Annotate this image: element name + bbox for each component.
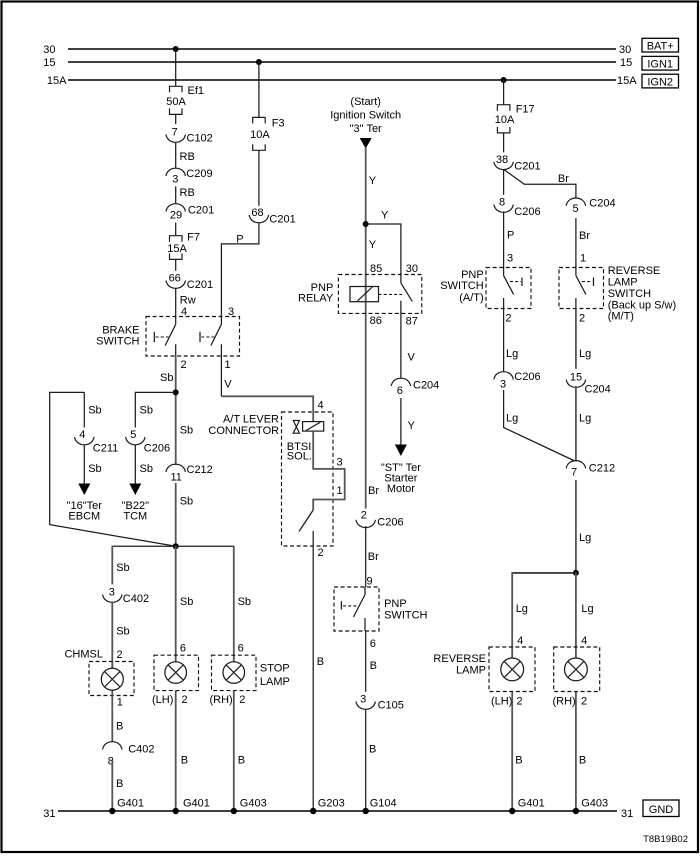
svg-text:C204: C204 [413, 379, 439, 391]
svg-text:V: V [224, 378, 232, 390]
wire B reverse RH to ground [576, 692, 586, 812]
svg-text:85: 85 [370, 263, 382, 275]
svg-text:(LH): (LH) [491, 695, 512, 707]
svg-text:1: 1 [225, 359, 231, 371]
brake switch box [96, 317, 239, 357]
svg-text:C209: C209 [186, 168, 212, 180]
connector C212 pin 7 [566, 461, 615, 479]
svg-text:1: 1 [337, 485, 343, 497]
svg-text:29: 29 [170, 210, 182, 222]
svg-text:3: 3 [507, 253, 513, 265]
wire bus15A to fuse F17 [503, 80, 505, 105]
svg-text:C105: C105 [378, 700, 404, 712]
wire Rw to brake switch pin 4 [176, 288, 196, 318]
svg-text:LAMP: LAMP [260, 676, 290, 688]
svg-text:Br: Br [368, 485, 379, 497]
svg-text:RELAY: RELAY [298, 293, 334, 305]
IGN2 box [642, 74, 679, 88]
svg-text:Sb: Sb [140, 405, 153, 417]
wire Br branch to C204 [504, 169, 576, 198]
svg-text:G401: G401 [117, 798, 144, 810]
svg-text:C402: C402 [128, 743, 154, 755]
wire RB [176, 142, 195, 169]
wire Lg pin 2 to C206 [504, 309, 519, 373]
svg-text:2: 2 [579, 313, 585, 325]
arrow to EBCM [78, 484, 90, 496]
wire Sb to stop lamp LH [176, 546, 194, 667]
svg-text:15: 15 [620, 57, 632, 69]
svg-text:2: 2 [181, 359, 187, 371]
ground G401 stop LH [173, 798, 210, 815]
reverse lamp LH box [489, 647, 535, 692]
svg-text:SOL.: SOL. [287, 451, 312, 463]
wire B CHMSL to ground [112, 760, 123, 811]
svg-text:(Back up S/w): (Back up S/w) [608, 299, 676, 311]
connector C209 pin 3 [166, 168, 213, 185]
svg-text:Lg: Lg [516, 603, 528, 615]
wire Lg diagonal to C212 [504, 390, 575, 461]
svg-text:5: 5 [130, 429, 136, 441]
svg-text:3: 3 [228, 306, 234, 318]
node Lg junction [573, 570, 579, 576]
svg-text:7: 7 [571, 467, 577, 479]
connector C206 pin 2 [356, 509, 404, 528]
bus 15 IGN1 [43, 57, 632, 69]
bus 15A IGN2 [47, 75, 637, 87]
svg-text:15: 15 [570, 372, 582, 384]
svg-text:6: 6 [370, 638, 376, 650]
bus 31 ground [43, 808, 633, 820]
arrow from ignition switch [360, 138, 372, 149]
svg-text:2: 2 [318, 547, 324, 559]
svg-text:B: B [515, 754, 522, 766]
svg-text:Br: Br [579, 230, 590, 242]
svg-text:Sb: Sb [116, 626, 129, 638]
svg-text:Sb: Sb [180, 596, 193, 608]
svg-text:3: 3 [500, 379, 506, 391]
svg-text:G104: G104 [370, 798, 397, 810]
PNP switch contact [341, 587, 365, 631]
reverse lamp switch label [608, 265, 676, 323]
CHMSL lamp box [89, 662, 134, 696]
svg-text:5: 5 [572, 203, 578, 215]
wire Lg branch to reverse lamp LH [512, 572, 576, 667]
svg-text:7: 7 [172, 127, 178, 139]
BTSI solenoid valve symbol [293, 421, 299, 434]
REVERSE LAMP label [433, 653, 486, 677]
label (RH) 2 reverse [553, 695, 588, 707]
BTSI solenoid coil [303, 422, 324, 432]
svg-text:TCM: TCM [123, 510, 147, 522]
svg-text:6: 6 [397, 385, 403, 397]
connector C201 pin 38 [494, 154, 541, 172]
wire Sb TCM branch [135, 392, 175, 427]
wire Sb EBCM drop [84, 392, 101, 427]
svg-text:Rw: Rw [180, 294, 196, 306]
reverse lamp RH [565, 658, 588, 681]
connector C206 pin 5 [126, 429, 170, 454]
svg-text:2: 2 [182, 694, 188, 706]
wire V to A/T lever connector pin 4 [221, 396, 323, 421]
ground G203 [310, 798, 345, 815]
wire B to ground G104 [366, 709, 377, 811]
svg-text:Sb: Sb [88, 463, 101, 475]
svg-text:C204: C204 [589, 198, 615, 210]
svg-text:Y: Y [369, 175, 377, 187]
IGN1 box [642, 56, 679, 70]
A/T lever connector label [208, 414, 279, 437]
connector C105 pin 3 [356, 694, 404, 712]
svg-text:2: 2 [581, 695, 587, 707]
GND box [643, 800, 679, 817]
relay coil [350, 287, 379, 302]
fuse Ef1 50A [166, 85, 204, 124]
connector C204 pin 6 [391, 378, 439, 397]
svg-text:Lg: Lg [506, 413, 518, 425]
svg-text:15A: 15A [47, 75, 67, 87]
svg-text:(RH): (RH) [210, 694, 233, 706]
svg-text:(Start): (Start) [350, 96, 381, 108]
wire Y ignition to relay coil [366, 147, 377, 509]
svg-text:C201: C201 [514, 160, 540, 172]
stop lamp RH box [212, 655, 257, 690]
svg-text:(LH): (LH) [152, 694, 173, 706]
svg-text:(M/T): (M/T) [608, 311, 634, 323]
svg-text:15A: 15A [617, 75, 637, 87]
svg-text:1: 1 [117, 697, 123, 709]
svg-text:CHMSL: CHMSL [64, 648, 103, 660]
svg-text:LAMP: LAMP [608, 277, 638, 289]
connector C102 pin 7 [166, 127, 213, 145]
svg-text:G401: G401 [518, 798, 545, 810]
svg-text:REVERSE: REVERSE [608, 265, 661, 277]
connector C206 pin 3 right [494, 371, 541, 390]
svg-text:RB: RB [180, 187, 195, 199]
wire Lg to reverse lamp RH [576, 573, 594, 667]
svg-text:STOP: STOP [260, 663, 290, 675]
svg-text:4: 4 [581, 635, 587, 647]
svg-text:Br: Br [368, 551, 379, 563]
svg-text:4: 4 [79, 429, 85, 441]
svg-text:68: 68 [251, 207, 263, 219]
node Sb junction 2 [173, 543, 179, 549]
svg-text:30: 30 [406, 263, 418, 275]
label (LH) 2 [152, 694, 188, 706]
wire B reverse LH to ground [512, 692, 522, 812]
wire Y branch to relay pin 30 [366, 210, 401, 284]
svg-text:C201: C201 [187, 279, 213, 291]
label (RH) 2 [210, 694, 246, 706]
svg-text:15: 15 [43, 57, 55, 69]
BAT+ box [642, 38, 679, 52]
svg-text:3: 3 [172, 173, 178, 185]
svg-text:C402: C402 [123, 593, 149, 605]
svg-text:66: 66 [169, 273, 181, 285]
svg-text:"3" Ter: "3" Ter [350, 123, 382, 135]
svg-text:3: 3 [109, 587, 115, 599]
svg-text:C206: C206 [514, 371, 540, 383]
svg-text:31: 31 [621, 808, 633, 820]
svg-text:LAMP: LAMP [456, 665, 486, 677]
connector C201 pin 66 [166, 273, 213, 291]
svg-text:C206: C206 [514, 206, 540, 218]
A/T lever switch blade [299, 510, 313, 532]
ground G403 stop RH [231, 798, 267, 815]
svg-text:G403: G403 [581, 798, 608, 810]
svg-text:B: B [579, 754, 586, 766]
connector C402 pin 8 [103, 742, 155, 768]
svg-text:2: 2 [517, 695, 523, 707]
svg-text:C206: C206 [144, 442, 170, 454]
arrow to TCM [129, 484, 141, 496]
svg-text:(RH): (RH) [553, 695, 576, 707]
svg-text:P: P [507, 229, 514, 241]
svg-text:B: B [181, 754, 188, 766]
wire B stop RH to ground [234, 691, 245, 811]
svg-text:Sb: Sb [160, 372, 173, 384]
arrow to starter motor [395, 445, 407, 457]
svg-text:10A: 10A [495, 114, 515, 126]
fuse F17 10A [495, 104, 535, 153]
connector C201 pin 29 [166, 204, 214, 222]
wire Y to starter motor [401, 398, 416, 445]
svg-text:(A/T): (A/T) [459, 292, 483, 304]
svg-text:IGN2: IGN2 [647, 76, 673, 88]
wire pin 6 B to C105 [366, 631, 377, 692]
node "ST" Ter starter motor [381, 462, 421, 495]
svg-text:31: 31 [43, 808, 55, 820]
wire 38 down to C206 [503, 169, 505, 195]
svg-text:Ef1: Ef1 [188, 85, 205, 97]
wire Sb to CHMSL lamp [112, 602, 129, 669]
svg-text:B: B [369, 743, 376, 755]
wire B stop LH to ground [176, 691, 188, 811]
junction on bus 30 [173, 46, 179, 52]
svg-text:SWITCH: SWITCH [96, 336, 139, 348]
wire 5 to switch [575, 218, 577, 268]
junction on bus 15A [501, 77, 507, 83]
brake switch contact pins 4-2 [154, 317, 175, 357]
wire bus15 to fuse F3 [258, 62, 260, 117]
svg-text:1: 1 [580, 253, 586, 265]
svg-text:F3: F3 [272, 118, 285, 130]
fuse F3 10A [250, 117, 284, 205]
PNP switch AT label [440, 269, 483, 304]
svg-text:BAT+: BAT+ [647, 40, 674, 52]
svg-text:Sb: Sb [140, 463, 153, 475]
wire V below brake switch [221, 356, 232, 396]
svg-text:4: 4 [517, 635, 523, 647]
svg-text:SWITCH: SWITCH [608, 288, 651, 300]
connector C204 pin 5 [566, 198, 615, 215]
svg-text:B: B [238, 754, 245, 766]
svg-text:15A: 15A [167, 243, 187, 255]
node ignition switch feed [330, 96, 401, 135]
PNP relay label [298, 282, 334, 305]
wire Sb to EBCM arrow [84, 445, 101, 485]
wire P to brake switch pin 3 [221, 223, 259, 319]
node "16"Ter EBCM [67, 500, 103, 522]
relay link dashed [379, 293, 403, 295]
svg-text:2: 2 [117, 649, 123, 661]
wire Sb branch to stop lamp RH [176, 546, 251, 667]
stop lamp RH [223, 662, 245, 684]
wire Sb C212 to junction2 [176, 483, 193, 546]
svg-text:8: 8 [499, 197, 505, 209]
svg-text:REVERSE: REVERSE [433, 653, 486, 665]
ground G403 reverse RH [573, 798, 608, 815]
svg-text:Sb: Sb [88, 405, 101, 417]
CHMSL lamp [101, 662, 123, 696]
node Y junction [363, 221, 369, 227]
wire V relay 87 to C204 [401, 313, 416, 378]
PNP switch box lower [334, 587, 379, 631]
label (LH) 2 reverse [491, 695, 523, 707]
svg-text:Sb: Sb [116, 562, 129, 574]
relay pin labels 85 30 [370, 263, 418, 275]
svg-text:Sb: Sb [180, 424, 193, 436]
svg-text:11: 11 [170, 471, 181, 483]
wire Sb brake to junction [160, 356, 176, 465]
reverse lamp LH [501, 658, 524, 681]
svg-text:GND: GND [649, 804, 674, 816]
connector C206 pin 8 [494, 197, 541, 218]
svg-text:86: 86 [370, 315, 382, 327]
svg-text:T8B19B02: T8B19B02 [643, 834, 688, 845]
reverse lamp RH box [554, 647, 600, 692]
svg-text:2: 2 [505, 313, 511, 325]
svg-text:C201: C201 [269, 213, 295, 225]
PNP switch AT contact [504, 268, 522, 309]
svg-text:G401: G401 [183, 798, 210, 810]
stop lamp LH [165, 662, 187, 684]
node Sb junction 1 [173, 389, 179, 395]
svg-text:Y: Y [381, 210, 389, 222]
relay pin labels 86 87 [370, 315, 418, 327]
svg-text:RB: RB [180, 151, 195, 163]
svg-text:C212: C212 [589, 462, 615, 474]
fuse F7 15A [167, 231, 200, 270]
connector C204 pin 15 [566, 372, 611, 396]
PNP switch label [384, 598, 427, 622]
wire P to PNP switch AT pin 3 [504, 212, 515, 268]
svg-text:G203: G203 [318, 798, 345, 810]
svg-text:Y: Y [369, 239, 377, 251]
wire C201 to F7 [175, 223, 177, 236]
svg-text:B: B [116, 778, 123, 790]
wire RB 2 [176, 186, 195, 204]
PNP relay box [338, 275, 421, 314]
svg-text:C102: C102 [187, 133, 213, 145]
svg-text:B: B [370, 660, 377, 672]
svg-text:Motor: Motor [387, 483, 415, 495]
svg-text:F7: F7 [187, 231, 200, 243]
svg-text:B: B [116, 720, 123, 732]
svg-text:C212: C212 [187, 464, 213, 476]
svg-text:EBCM: EBCM [68, 510, 100, 522]
wire Lg pin 2 to C204 [576, 309, 591, 369]
svg-text:C204: C204 [585, 384, 611, 396]
svg-text:4: 4 [318, 400, 324, 412]
svg-text:6: 6 [238, 642, 244, 654]
wire Br to reverse lamp switch pin 1 [579, 230, 590, 265]
svg-text:V: V [408, 352, 416, 364]
svg-text:P: P [236, 233, 243, 245]
connector C201 pin 68 [249, 207, 295, 225]
svg-text:2: 2 [361, 509, 367, 521]
ground G104 [363, 798, 397, 815]
svg-text:Sb: Sb [180, 495, 193, 507]
svg-text:3: 3 [337, 457, 343, 469]
svg-text:Lg: Lg [579, 532, 591, 544]
wire Lg to reverse lamp junction [576, 480, 591, 573]
svg-text:3: 3 [360, 694, 366, 706]
svg-text:Y: Y [408, 420, 416, 432]
svg-text:30: 30 [619, 44, 631, 56]
reverse lamp switch box [559, 268, 604, 309]
connector C212 pin 11 [166, 464, 213, 484]
relay armature contact [401, 283, 412, 313]
STOP LAMP label [260, 663, 290, 688]
svg-text:SWITCH: SWITCH [440, 280, 483, 292]
svg-text:Br: Br [558, 173, 569, 185]
svg-text:B: B [317, 656, 324, 668]
wire Sb to TCM arrow [135, 445, 153, 485]
svg-text:2: 2 [239, 694, 245, 706]
wire BTSI jog pins 3 1 [313, 431, 345, 510]
wire pin 2 B to ground G203 [313, 531, 324, 811]
svg-text:38: 38 [496, 154, 508, 166]
svg-text:87: 87 [406, 316, 418, 328]
svg-text:IGN1: IGN1 [647, 59, 673, 71]
A/T lever connector box [282, 412, 334, 546]
wire Lg to C212 [576, 386, 591, 461]
ground G401 reverse LH [509, 798, 545, 815]
ground G401 CHMSL [109, 798, 144, 815]
svg-text:Lg: Lg [579, 348, 591, 360]
svg-text:PNP: PNP [384, 598, 407, 610]
svg-text:Lg: Lg [579, 413, 591, 425]
wire Sb loop to EBCM branch [50, 392, 176, 546]
svg-text:Ignition Switch: Ignition Switch [330, 109, 401, 121]
svg-text:30: 30 [43, 44, 55, 56]
svg-text:9: 9 [367, 575, 373, 587]
svg-text:CONNECTOR: CONNECTOR [208, 425, 279, 437]
PNP switch AT box [486, 268, 531, 309]
svg-text:10A: 10A [250, 129, 270, 141]
wire bus30 to fuse Ef1 [175, 49, 177, 86]
svg-text:SWITCH: SWITCH [384, 610, 427, 622]
svg-text:Sb: Sb [238, 596, 251, 608]
svg-text:6: 6 [180, 642, 186, 654]
connector C211 pin 4 [75, 429, 119, 454]
svg-text:C211: C211 [93, 442, 118, 454]
connector C402 pin 3 [103, 587, 149, 605]
reverse lamp switch contact [576, 268, 594, 309]
node "B22" TCM [122, 500, 149, 522]
brake switch contact pins 3-1 [200, 317, 221, 357]
svg-text:Lg: Lg [581, 603, 593, 615]
junction on bus 15 [256, 59, 262, 65]
svg-text:G403: G403 [240, 798, 267, 810]
wire branch to CHMSL [112, 546, 175, 585]
svg-text:C206: C206 [377, 517, 403, 529]
stop lamp LH box [154, 655, 199, 690]
bus 30 BAT+ [43, 44, 631, 56]
svg-text:50A: 50A [166, 96, 186, 108]
svg-text:Lg: Lg [506, 348, 518, 360]
svg-text:C201: C201 [188, 205, 214, 217]
